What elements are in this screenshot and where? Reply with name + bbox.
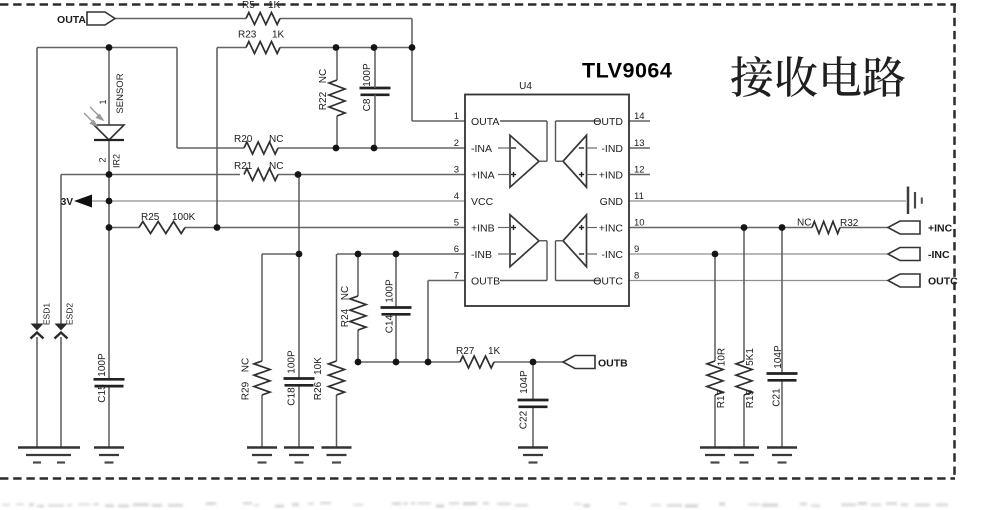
- svg-text:TLV9064: TLV9064: [582, 59, 672, 83]
- svg-text:R22: R22: [318, 91, 329, 110]
- svg-text:3V: 3V: [61, 197, 74, 208]
- svg-text:3: 3: [454, 165, 459, 176]
- svg-text:4: 4: [454, 191, 459, 202]
- svg-text:14: 14: [634, 111, 645, 122]
- svg-text:1K: 1K: [488, 346, 501, 357]
- svg-text:11: 11: [634, 191, 644, 202]
- svg-text:ESD2: ESD2: [65, 303, 75, 325]
- svg-text:8: 8: [634, 271, 639, 282]
- svg-text:NC: NC: [269, 134, 283, 145]
- svg-text:100P: 100P: [287, 350, 298, 374]
- svg-text:OUTD: OUTD: [593, 116, 623, 128]
- svg-text:OUTA: OUTA: [471, 116, 499, 128]
- svg-text:U4: U4: [519, 81, 532, 92]
- svg-text:NC: NC: [318, 69, 329, 83]
- svg-text:VCC: VCC: [471, 196, 494, 208]
- svg-text:5: 5: [454, 218, 459, 229]
- svg-text:OUTC: OUTC: [593, 276, 623, 288]
- svg-text:100P: 100P: [97, 353, 108, 377]
- svg-text:NC: NC: [241, 358, 252, 372]
- svg-text:OUTC: OUTC: [928, 276, 958, 288]
- svg-text:R5: R5: [242, 0, 255, 11]
- svg-text:GND: GND: [600, 196, 624, 208]
- svg-text:6: 6: [454, 244, 459, 255]
- svg-text:100P: 100P: [385, 279, 396, 303]
- svg-text:-INC: -INC: [601, 249, 623, 261]
- svg-text:R32: R32: [840, 218, 859, 229]
- svg-text:10R: 10R: [717, 348, 728, 366]
- svg-text:ESD1: ESD1: [42, 303, 52, 325]
- svg-text:-INB: -INB: [471, 249, 492, 261]
- svg-text:OUTB: OUTB: [598, 358, 628, 370]
- svg-text:NC: NC: [340, 286, 351, 300]
- svg-text:R21: R21: [234, 161, 253, 172]
- svg-text:C14: C14: [385, 314, 396, 333]
- svg-text:-INC: -INC: [928, 249, 950, 261]
- svg-text:R25: R25: [141, 212, 160, 223]
- svg-text:104P: 104P: [773, 345, 784, 369]
- svg-text:100K: 100K: [172, 212, 196, 223]
- svg-text:IR2: IR2: [112, 154, 122, 168]
- svg-text:-IND: -IND: [601, 143, 623, 155]
- svg-text:+INC: +INC: [599, 223, 624, 235]
- svg-text:SENSOR: SENSOR: [115, 73, 126, 113]
- svg-text:2: 2: [98, 157, 108, 162]
- svg-text:+IND: +IND: [599, 170, 624, 182]
- svg-text:OUTB: OUTB: [471, 276, 500, 288]
- svg-text:C8: C8: [362, 98, 373, 111]
- svg-text:13: 13: [634, 138, 645, 149]
- svg-text:10K: 10K: [313, 357, 324, 375]
- svg-text:R26: R26: [313, 381, 324, 400]
- svg-text:12: 12: [634, 165, 645, 176]
- svg-text:1K: 1K: [268, 0, 281, 11]
- svg-text:R17: R17: [716, 389, 727, 408]
- svg-text:104P: 104P: [519, 370, 530, 394]
- svg-text:R27: R27: [456, 346, 475, 357]
- svg-text:7: 7: [454, 271, 459, 282]
- svg-text:NC: NC: [797, 218, 811, 229]
- svg-text:5K1: 5K1: [745, 348, 756, 366]
- svg-text:+INC: +INC: [928, 223, 953, 235]
- svg-text:9: 9: [634, 244, 639, 255]
- svg-text:R29: R29: [241, 381, 252, 400]
- svg-text:-INA: -INA: [471, 143, 492, 155]
- svg-text:+INA: +INA: [471, 170, 495, 182]
- svg-text:C15: C15: [97, 384, 108, 403]
- svg-text:R19: R19: [745, 389, 756, 408]
- svg-text:1K: 1K: [272, 30, 285, 41]
- svg-text:C18: C18: [287, 387, 298, 406]
- svg-text:2: 2: [454, 138, 459, 149]
- svg-text:R20: R20: [234, 134, 253, 145]
- svg-text:C22: C22: [519, 410, 530, 429]
- svg-text:100P: 100P: [362, 63, 373, 87]
- svg-text:10: 10: [634, 218, 645, 229]
- svg-text:OUTA: OUTA: [57, 14, 86, 26]
- svg-text:NC: NC: [269, 161, 283, 172]
- svg-text:1: 1: [98, 99, 108, 104]
- svg-text:C21: C21: [772, 388, 783, 407]
- svg-text:R24: R24: [340, 308, 351, 327]
- svg-text:+INB: +INB: [471, 223, 495, 235]
- svg-text:R23: R23: [238, 30, 257, 41]
- svg-text:1: 1: [454, 111, 459, 122]
